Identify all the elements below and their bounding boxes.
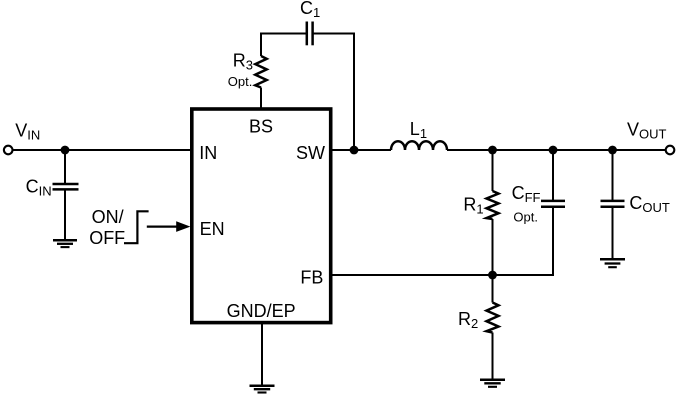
svg-text:IN: IN: [199, 143, 217, 163]
svg-text:EN: EN: [200, 219, 225, 239]
svg-text:R1: R1: [463, 194, 483, 216]
svg-text:Opt.: Opt.: [513, 209, 538, 224]
svg-text:VIN: VIN: [15, 121, 40, 143]
svg-text:GND/EP: GND/EP: [227, 301, 296, 321]
svg-text:SW: SW: [296, 143, 325, 163]
svg-text:VOUT: VOUT: [627, 119, 667, 141]
svg-text:Opt.: Opt.: [228, 74, 253, 89]
svg-text:COUT: COUT: [629, 193, 670, 215]
svg-text:CIN: CIN: [26, 176, 52, 198]
svg-text:OFF: OFF: [89, 228, 125, 248]
svg-text:R3: R3: [233, 50, 253, 72]
svg-text:BS: BS: [249, 116, 273, 136]
svg-text:ON/: ON/: [92, 207, 124, 227]
svg-text:CFF: CFF: [512, 183, 541, 205]
svg-text:C1: C1: [300, 0, 320, 20]
svg-text:L1: L1: [410, 119, 427, 141]
svg-text:FB: FB: [300, 267, 323, 287]
svg-text:R2: R2: [458, 309, 478, 331]
